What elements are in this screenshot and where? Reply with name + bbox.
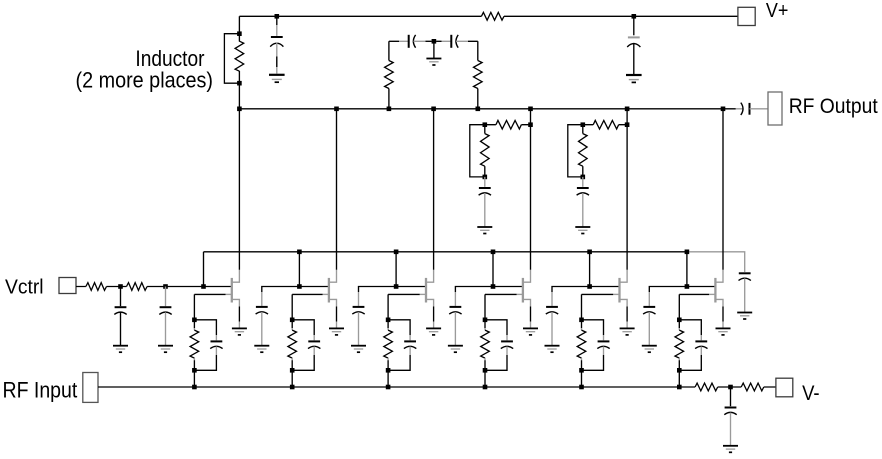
node input rail cell 1: [192, 385, 197, 390]
wire gate1 cell 4: [485, 294, 517, 319]
capacitor C gate cell 1: [194, 320, 222, 371]
capacitor C6 block 1: [479, 177, 491, 227]
node gate2 cell 2: [297, 284, 302, 289]
ground block 2: [575, 227, 590, 234]
wire source cell 2: [336, 307, 338, 328]
ground source cell 1: [232, 328, 247, 335]
wire Vctrl chain: [76, 286, 204, 288]
node output rail x433: [431, 107, 436, 112]
capacitor C11 termination: [724, 387, 736, 445]
wire drain cell 4: [530, 109, 532, 270]
node RC top cell 5: [579, 318, 584, 323]
label Inductor (2 more places): [76, 46, 214, 93]
resistor R4 block 1: [485, 120, 531, 129]
ground termination: [723, 446, 738, 453]
node block 1 left: [483, 122, 488, 127]
wire RC to input rail cell 2: [291, 370, 293, 387]
node input rail cell 5: [579, 385, 584, 390]
resistor R3: [474, 61, 483, 89]
wire gate riser cell 3: [395, 252, 397, 287]
node gate rail cell 3: [394, 250, 399, 255]
wire gate riser cell 4: [492, 252, 494, 287]
ground centre tap: [426, 41, 441, 65]
capacitor C7 block 2: [577, 177, 589, 227]
node input rail cell 4: [483, 385, 488, 390]
ground source cell 6: [716, 328, 731, 335]
svg-text:Vctrl: Vctrl: [5, 276, 44, 298]
ground C1: [269, 75, 285, 82]
node output rail x627: [625, 107, 630, 112]
node block 1 right (drain line): [528, 122, 533, 127]
node RC top cell 4: [483, 318, 488, 323]
node RC bottom cell 1: [192, 368, 197, 373]
port Vctrl: [59, 278, 76, 294]
node RC bottom cell 4: [483, 368, 488, 373]
node output rail x336: [334, 107, 339, 112]
node input rail cell 3: [386, 385, 391, 390]
capacitor C gate cell 4: [485, 320, 513, 371]
ground Vctrl C9: [113, 346, 128, 353]
wire drain cell 3: [433, 109, 435, 270]
transistor Q1: [226, 270, 240, 307]
resistor R gate cell 5: [577, 320, 586, 371]
port RF Output: [768, 92, 782, 125]
wire RC to input rail cell 1: [193, 370, 195, 387]
ground C2: [626, 75, 642, 82]
capacitor C2 V+ bypass: [627, 16, 640, 74]
wire V+ supply rail: [239, 16, 738, 31]
wire gate2 cell 5: [590, 286, 620, 288]
node RC bottom cell 2: [290, 368, 295, 373]
capacitor C9 Vctrl filter: [114, 287, 126, 346]
ground source cell 2: [329, 328, 344, 335]
wire gate riser cell 2: [298, 252, 300, 287]
ground source cell 5: [620, 328, 635, 335]
node gate rail cell 4: [491, 250, 496, 255]
ground shunt cell 4: [448, 346, 463, 353]
ground shunt cell 6: [642, 346, 657, 353]
node input rail cell 6: [677, 385, 682, 390]
wire RC to input rail cell 3: [387, 370, 389, 387]
wire gate1 cell 3: [388, 294, 420, 319]
capacitor C gate cell 2: [292, 320, 320, 371]
capacitor C shunt cell 5: [546, 287, 590, 346]
node L1 top: [237, 31, 242, 36]
transistor Q4: [517, 270, 531, 307]
node RC bottom cell 5: [579, 368, 584, 373]
port V-: [776, 378, 793, 397]
node block 2 inductor bottom: [581, 175, 586, 180]
inductor L1 (labelled): [224, 34, 243, 83]
resistor R gate cell 6: [675, 320, 684, 371]
node RC top cell 1: [192, 318, 197, 323]
resistor R9 input termination: [741, 383, 764, 391]
node RC top cell 3: [386, 318, 391, 323]
resistor R gate cell 2: [288, 320, 297, 371]
svg-text:V-: V-: [802, 382, 820, 405]
ground source cell 3: [426, 328, 441, 335]
node output rail x388: [387, 107, 392, 112]
wire RC to input rail cell 5: [581, 370, 583, 387]
capacitor C4: [389, 35, 432, 48]
inductor L3 block 2: [568, 125, 587, 177]
node L1 bottom: [237, 81, 242, 86]
node gate2 cell 3: [394, 284, 399, 289]
wire gate1 cell 5: [582, 294, 614, 319]
node RC bottom cell 3: [386, 368, 391, 373]
wire gate2 cell 1: [204, 286, 232, 288]
resistor R5 block 2: [583, 120, 627, 129]
svg-text:V+: V+: [766, 0, 789, 22]
capacitor C shunt cell 4: [449, 287, 493, 346]
resistor R7 Vctrl: [127, 283, 148, 291]
wire source cell 4: [530, 307, 532, 328]
capacitor C gate cell 3: [388, 320, 416, 371]
resistor R gate cell 1: [190, 320, 199, 371]
ground source cell 4: [523, 328, 538, 335]
node gate2 cell 4: [491, 284, 496, 289]
node V+ rail / C2: [632, 14, 637, 19]
node RC top cell 2: [290, 318, 295, 323]
transistor Q6: [709, 270, 723, 307]
label Vctrl: [5, 276, 44, 298]
node block 1 inductor bottom: [483, 175, 488, 180]
capacitor C3 output coupling: [736, 103, 768, 115]
node RC top cell 6: [677, 318, 682, 323]
wire gate riser cell 6: [686, 252, 688, 287]
node output rail x723: [721, 107, 726, 112]
node termination: [728, 385, 733, 390]
resistor R1 V+ feed: [481, 12, 504, 20]
ground shunt cell 5: [545, 346, 560, 353]
wire drain cell 2: [336, 109, 338, 270]
wire source cell 5: [626, 307, 628, 328]
label RF Output: [789, 95, 878, 118]
wire drain cell 6: [722, 109, 724, 270]
capacitor C gate cell 5: [582, 320, 610, 371]
capacitor C shunt cell 6: [643, 287, 687, 346]
wire source cell 1: [238, 307, 240, 328]
resistor R gate cell 3: [384, 320, 393, 371]
wire cap bank left branch: [388, 41, 390, 109]
svg-text:(2 more places): (2 more places): [76, 68, 214, 93]
node gate2 cell 6: [685, 284, 690, 289]
wire gate riser cell 5: [589, 252, 591, 287]
wire L1 to output rail: [238, 83, 240, 109]
node gate2 cell 1: [201, 284, 206, 289]
wire source cell 3: [433, 307, 435, 328]
capacitor C5: [436, 35, 458, 48]
capacitor C8 gate termination: [739, 273, 751, 312]
resistor R6 Vctrl: [86, 283, 107, 291]
wire drain cell 1: [238, 109, 240, 270]
svg-text:RF Input: RF Input: [3, 377, 78, 402]
wire gate2 cell 3: [396, 286, 426, 288]
node gate rail cell 6: [685, 250, 690, 255]
ground Vctrl C10: [158, 346, 173, 353]
wire gate2 cell 6: [687, 286, 716, 288]
node output rail x530: [528, 107, 533, 112]
node gate rail cell 5: [587, 250, 592, 255]
wire gate1 cell 1: [194, 294, 225, 319]
port V+: [738, 7, 755, 25]
node block 2 right (drain line): [625, 122, 630, 127]
resistor R2: [385, 61, 394, 89]
resistor R gate cell 4: [481, 320, 490, 371]
node output rail x239: [237, 107, 242, 112]
node output rail x477: [476, 107, 481, 112]
capacitor C shunt cell 3: [352, 287, 396, 346]
label V-: [802, 382, 820, 405]
capacitor C1 V+ bypass: [270, 16, 283, 73]
node input rail cell 2: [290, 385, 295, 390]
port RF Input: [83, 373, 98, 403]
wire output rail: [239, 108, 735, 110]
wire cap bank right branch: [456, 41, 478, 109]
wire gate2 cell 4: [493, 286, 523, 288]
node RC bottom cell 6: [677, 368, 682, 373]
wire RF input rail: [98, 386, 776, 388]
node V+ rail / C1: [275, 14, 280, 19]
svg-text:RF Output: RF Output: [789, 95, 878, 118]
ground gate termination: [737, 313, 752, 320]
label V+: [766, 0, 789, 22]
inductor L2 block 1: [470, 125, 489, 177]
transistor Q2: [323, 270, 337, 307]
wire gate2 cell 2: [299, 286, 329, 288]
node gate2 cell 5: [587, 284, 592, 289]
ground shunt cell 3: [351, 346, 366, 353]
transistor Q5: [613, 270, 627, 307]
capacitor C gate cell 6: [679, 320, 707, 371]
wire gate1 cell 6: [679, 294, 709, 319]
node cap pair centre: [432, 39, 437, 44]
wire drain cell 5: [626, 109, 628, 270]
wire gate rail to termination cap: [687, 252, 745, 272]
ground block 1: [477, 227, 492, 234]
node block 2 left: [581, 122, 586, 127]
wire gate1 cell 2: [292, 294, 322, 319]
node Vctrl C10: [163, 284, 168, 289]
transistor Q3: [420, 270, 434, 307]
resistor R8 input termination: [695, 383, 718, 391]
capacitor C10 Vctrl filter: [159, 287, 171, 346]
wire source cell 6: [722, 307, 724, 328]
node Vctrl C9: [118, 284, 123, 289]
ground shunt cell 2: [254, 346, 269, 353]
wire RC to input rail cell 6: [678, 370, 680, 387]
wire gate riser cell 1: [203, 252, 205, 287]
node gate rail cell 2: [297, 250, 302, 255]
wire gate bias rail: [204, 251, 687, 253]
capacitor C shunt cell 2: [256, 287, 300, 346]
wire RC to input rail cell 4: [484, 370, 486, 387]
label RF Input: [3, 377, 78, 402]
